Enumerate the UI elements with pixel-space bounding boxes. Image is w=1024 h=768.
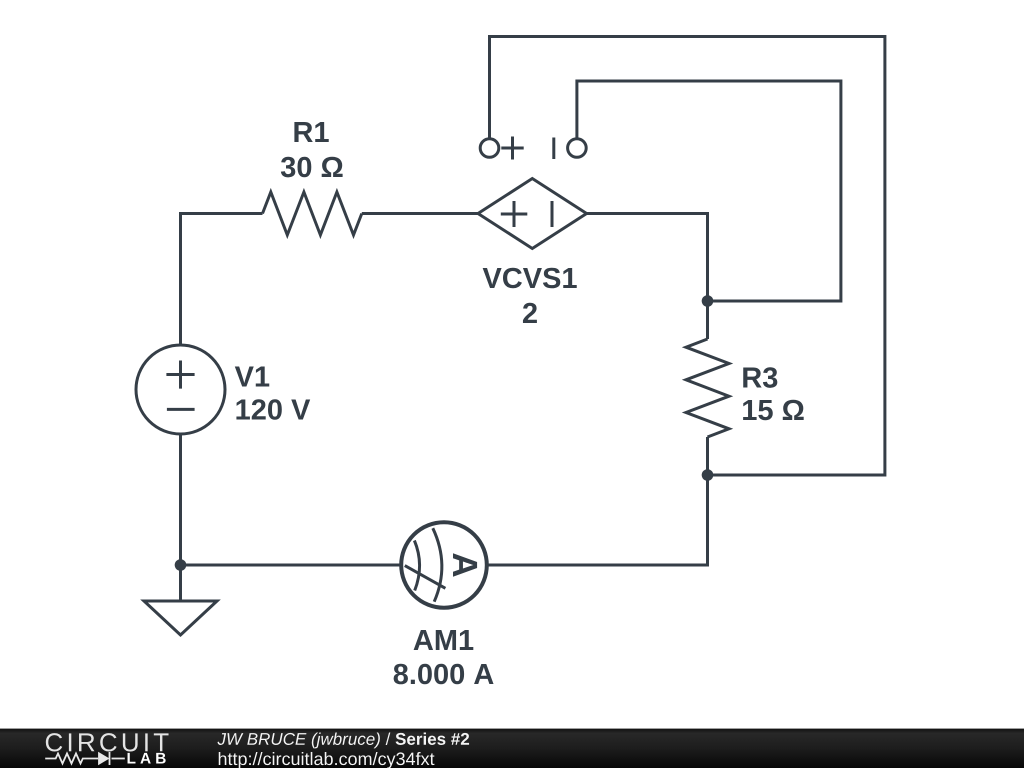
terminal circle: sense minus	[568, 139, 587, 158]
terminal circle: sense plus	[480, 139, 499, 158]
resistor R1	[263, 192, 362, 235]
voltage source V1 body	[136, 345, 225, 434]
logo wordmark CIRCUIT	[46, 733, 169, 751]
wire: V1 bottom to ground	[179, 434, 182, 601]
wire: R1 to VCVS1 left vertex	[362, 212, 478, 215]
wire: left vertical and top-left corner to R1	[181, 214, 263, 347]
ammeter letter A	[453, 553, 477, 576]
V1 plus mark	[166, 361, 194, 389]
V1 minus mark	[167, 408, 195, 411]
wire: ammeter left to ground node	[181, 564, 402, 567]
wire: outer sense loop from plus terminal to node B	[490, 37, 885, 476]
footer bar	[0, 729, 1024, 768]
wire: VCVS1 right vertex to node A	[587, 214, 708, 302]
value 15 ohm	[743, 400, 804, 421]
VCVS1 dependent-source diamond	[478, 179, 587, 249]
node B junction dot	[702, 469, 714, 481]
ground node junction dot	[175, 559, 187, 571]
ammeter gauge large arc	[433, 528, 442, 602]
logo diode triangle	[98, 752, 109, 765]
wire: node B down and left to ammeter	[487, 475, 708, 565]
ground symbol	[144, 601, 217, 635]
plus mark at sense terminal	[501, 137, 523, 160]
wire: node A to R3 top	[706, 301, 709, 339]
minus mark at sense terminal	[552, 138, 555, 160]
VCVS1 plus mark	[501, 201, 528, 227]
wire: R3 bottom to node B	[706, 437, 709, 475]
value 120 V	[236, 399, 310, 420]
VCVS1 minus mark	[551, 201, 554, 227]
value 8.000 A	[394, 664, 494, 685]
label R3	[743, 367, 777, 388]
footer title: JW BRUCE (jwbruce) / Series #2	[217, 732, 469, 748]
label R1	[294, 122, 328, 142]
value 30 ohm	[281, 157, 343, 178]
logo wordmark LAB	[128, 753, 166, 764]
wire: node A inner sense loop to minus terminal	[577, 81, 841, 301]
ammeter gauge small arc	[414, 541, 419, 591]
node A junction dot	[702, 295, 714, 307]
resistor R3	[686, 339, 729, 437]
value 2	[523, 303, 537, 323]
label V1	[235, 367, 269, 387]
logo resistor-diode glyph	[45, 752, 125, 765]
footer url http://circuitlab.com/cy34fxt	[219, 752, 435, 768]
ammeter AM1 body	[401, 522, 487, 608]
label AM1	[414, 630, 474, 650]
label VCVS1	[483, 268, 577, 289]
ammeter needle	[405, 566, 446, 589]
